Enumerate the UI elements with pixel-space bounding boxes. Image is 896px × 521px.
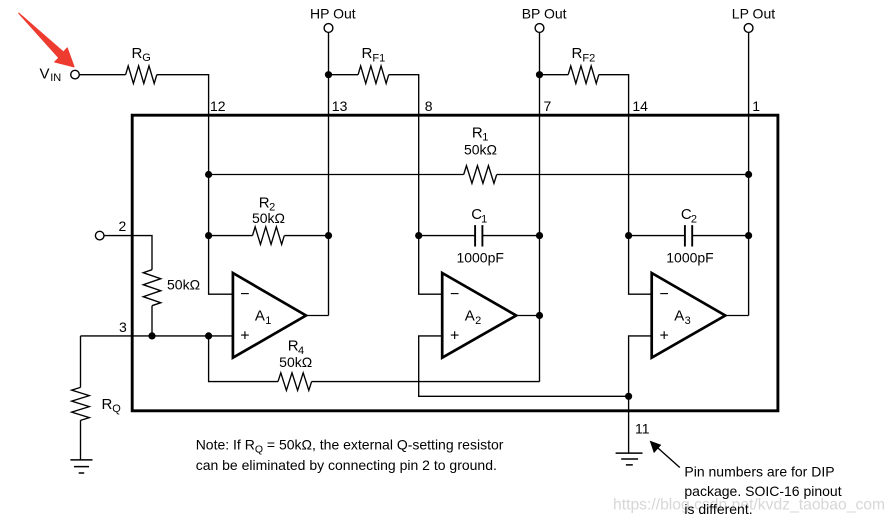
wire R4 to BP column xyxy=(312,381,540,383)
wire R2 left segment xyxy=(209,235,253,237)
svg-text:package. SOIC-16 pinout: package. SOIC-16 pinout xyxy=(684,483,841,499)
capacitor C2 xyxy=(629,225,749,246)
node HP Out label xyxy=(310,6,356,22)
wire R1 right segment xyxy=(497,174,749,176)
junction dot R1 right xyxy=(745,171,752,178)
wire RG to pin 12 xyxy=(157,75,209,114)
junction dot C1 left xyxy=(415,232,422,239)
capacitor C1 value 1000pF xyxy=(456,250,503,266)
svg-text:2: 2 xyxy=(691,213,697,225)
op-amp A2 xyxy=(442,273,516,358)
svg-text:1: 1 xyxy=(265,315,271,327)
svg-text:Note: If RQ = 50kΩ, the extern: Note: If RQ = 50kΩ, the external Q-setti… xyxy=(196,436,504,455)
svg-text:50kΩ: 50kΩ xyxy=(252,210,285,226)
node HP Out terminal xyxy=(324,24,333,33)
svg-text:7: 7 xyxy=(544,98,552,114)
resistor R2 label xyxy=(259,194,275,213)
junction dot BP/RF2 xyxy=(536,71,543,78)
resistor R4 label xyxy=(288,337,304,357)
wire BP Out to pin 7 / R4 xyxy=(539,32,541,381)
svg-text:−: − xyxy=(240,286,249,303)
svg-text:F1: F1 xyxy=(372,53,385,65)
capacitor C2 label xyxy=(681,206,697,225)
junction dot C2 right xyxy=(745,232,752,239)
svg-text:2: 2 xyxy=(119,218,127,234)
svg-text:+: + xyxy=(450,328,459,345)
svg-text:F2: F2 xyxy=(582,53,595,65)
resistor RQ label xyxy=(102,396,122,415)
wire RF1 to pin 8 xyxy=(389,75,419,114)
annotation text line 1 xyxy=(684,463,834,479)
svg-text:R: R xyxy=(572,45,583,62)
svg-text:−: − xyxy=(450,286,459,303)
svg-text:50kΩ: 50kΩ xyxy=(464,142,497,158)
node VIN label xyxy=(40,65,62,84)
capacitor C1 xyxy=(419,225,540,246)
svg-text:11: 11 xyxy=(635,420,650,436)
resistor 50k Q divider vertical xyxy=(143,270,161,306)
wire LP Out to pin 1 / A3 output xyxy=(748,32,750,315)
svg-text:3: 3 xyxy=(685,315,691,327)
op-amp A2 plus xyxy=(450,328,459,345)
svg-text:V: V xyxy=(40,65,50,82)
svg-text:1000pF: 1000pF xyxy=(456,250,503,266)
resistor R2 xyxy=(253,227,285,245)
resistor R1 xyxy=(464,166,497,184)
svg-text:1000pF: 1000pF xyxy=(666,250,713,266)
svg-text:1: 1 xyxy=(752,98,760,114)
wire RF2 to pin 14 xyxy=(599,75,629,114)
resistor 50k label xyxy=(167,277,200,293)
svg-text:R: R xyxy=(102,396,113,413)
wire pin 14 into box to A3 inverting input xyxy=(629,114,652,294)
op-amp A1 minus xyxy=(240,286,249,303)
junction dot pin3/50k xyxy=(148,332,155,339)
svg-text:is different.: is different. xyxy=(684,501,752,517)
annotation arrow to pin 11 xyxy=(650,441,680,468)
capacitor C1 label xyxy=(471,206,487,225)
watermark xyxy=(613,496,885,513)
junction dot A2 output xyxy=(536,312,543,319)
svg-text:R: R xyxy=(362,45,373,62)
annotation text line 3 xyxy=(684,501,752,517)
node VIN terminal xyxy=(71,70,80,79)
node pin 2 terminal xyxy=(95,231,104,240)
resistor R4 value 50k xyxy=(279,354,312,370)
pin 13 label xyxy=(332,98,348,114)
capacitor C2 value 1000pF xyxy=(666,250,713,266)
pin 7 label xyxy=(544,98,552,114)
svg-text:14: 14 xyxy=(632,98,648,114)
junction dot C1 right xyxy=(536,232,543,239)
wire pin 3 row xyxy=(81,335,233,337)
pin 8 label xyxy=(425,98,433,114)
resistor R1 value 50k xyxy=(464,142,497,158)
wire RQ to ground xyxy=(80,420,82,460)
junction dot R2 left xyxy=(205,232,212,239)
resistor RF2 label xyxy=(572,45,596,64)
svg-text:A: A xyxy=(255,308,265,325)
node BP Out label xyxy=(522,6,567,22)
pin 14 label xyxy=(632,98,648,114)
wire pin 11 to ground xyxy=(628,396,630,453)
op-amp A3 xyxy=(652,273,726,358)
svg-text:BP Out: BP Out xyxy=(522,6,567,22)
resistor RF1 xyxy=(358,66,389,84)
svg-text:can be eliminated by connectin: can be eliminated by connecting pin 2 to… xyxy=(196,457,497,473)
pin 11 label xyxy=(635,420,650,436)
svg-text:IN: IN xyxy=(50,72,61,84)
svg-text:50kΩ: 50kΩ xyxy=(279,354,312,370)
pin 3 label xyxy=(119,319,127,335)
wire A2 output to BP column xyxy=(516,315,539,317)
svg-text:Pin numbers are for DIP: Pin numbers are for DIP xyxy=(684,463,834,479)
resistor R2 value 50k xyxy=(252,210,285,226)
resistor R4 xyxy=(278,373,312,391)
wire pin 8 into box to A2 inverting input xyxy=(419,114,443,294)
op-amp A1 label xyxy=(255,308,272,328)
wire HP Out to pin 13 / A1 output xyxy=(328,32,330,315)
svg-text:3: 3 xyxy=(119,319,127,335)
resistor RG xyxy=(126,66,157,84)
ground symbol RQ xyxy=(70,460,92,473)
ground symbol pin 11 xyxy=(616,453,643,465)
svg-text:+: + xyxy=(240,328,249,345)
wire A3 plus input down to ground bus xyxy=(629,336,652,396)
IC package box xyxy=(132,115,778,411)
wire R2 right segment xyxy=(285,235,329,237)
note text line 2 xyxy=(196,457,497,473)
svg-text:13: 13 xyxy=(332,98,348,114)
wire A1 plus input down to R4 xyxy=(209,336,278,382)
op-amp A3 minus xyxy=(660,286,669,303)
op-amp A1 plus xyxy=(240,328,249,345)
wire VIN to RG xyxy=(79,74,125,76)
resistor RQ xyxy=(72,387,90,420)
svg-text:50kΩ: 50kΩ xyxy=(167,277,200,293)
svg-text:1: 1 xyxy=(481,213,487,225)
wire HP node to RF1 xyxy=(329,74,359,76)
svg-text:Q: Q xyxy=(112,403,121,415)
junction dot C2 left xyxy=(625,232,632,239)
svg-text:LP Out: LP Out xyxy=(732,6,775,22)
annotation text line 2 xyxy=(684,483,841,499)
wire A1 output xyxy=(306,315,329,317)
op-amp A3 label xyxy=(674,308,691,328)
op-amp A2 label xyxy=(465,308,482,328)
svg-text:8: 8 xyxy=(425,98,433,114)
pin 1 label xyxy=(752,98,760,114)
wire R1 left segment xyxy=(209,174,464,176)
junction dot R2 right xyxy=(325,232,332,239)
svg-text:2: 2 xyxy=(475,315,481,327)
svg-text:R: R xyxy=(132,45,143,62)
svg-text:A: A xyxy=(465,308,475,325)
node LP Out label xyxy=(732,6,775,22)
wire pin 2 to Q divider resistor xyxy=(104,236,152,270)
op-amp A2 minus xyxy=(450,286,459,303)
svg-text:HP Out: HP Out xyxy=(310,6,356,22)
pin 2 label xyxy=(119,218,127,234)
pin 12 label xyxy=(210,98,226,114)
wire A3 output xyxy=(725,315,748,317)
junction dot ground bus xyxy=(625,393,632,400)
svg-text:A: A xyxy=(674,308,684,325)
svg-text:−: − xyxy=(660,286,669,303)
red callout arrow to VIN xyxy=(19,13,74,67)
svg-text:12: 12 xyxy=(210,98,226,114)
op-amp A1 xyxy=(233,273,306,358)
resistor RG label xyxy=(132,45,151,64)
note text line 1 xyxy=(196,436,504,455)
node LP Out terminal xyxy=(744,24,753,33)
resistor RF2 xyxy=(568,66,599,84)
wire RQ branch vertical xyxy=(80,336,82,388)
resistor RF1 label xyxy=(362,45,386,64)
junction dot R1 left xyxy=(205,171,212,178)
junction dot HP/RF1 xyxy=(325,71,332,78)
resistor R1 label xyxy=(472,125,488,144)
junction dot pin3/R4 xyxy=(205,332,212,339)
wire pin 12 into box to A1 inverting input xyxy=(209,114,233,294)
svg-text:G: G xyxy=(142,52,151,64)
op-amp A3 plus xyxy=(660,328,669,345)
wire 50k to pin3 node xyxy=(151,306,153,336)
wire A2 plus input to ground bus xyxy=(419,336,629,396)
wire BP node to RF2 xyxy=(540,74,569,76)
svg-text:+: + xyxy=(660,328,669,345)
node BP Out terminal xyxy=(535,24,544,33)
